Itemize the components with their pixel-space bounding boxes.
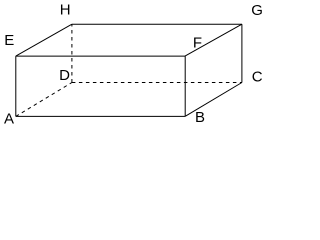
svg-text:G: G (251, 2, 263, 19)
svg-text:F: F (193, 35, 202, 52)
edge EH (top left depth) (16, 24, 72, 56)
svg-text:E: E (4, 32, 14, 49)
edge AD (hidden, dashed) (16, 83, 72, 117)
edge HG (back top) (72, 23, 242, 25)
svg-text:A: A (4, 110, 14, 127)
edge DC (hidden back bottom, dashed) (72, 82, 242, 84)
edge FG (top right depth) (185, 24, 242, 56)
edge EF (front top) (16, 55, 185, 57)
svg-text:H: H (60, 2, 71, 19)
edge BC (bottom right depth) (185, 83, 242, 117)
edge GC (back right vertical) (241, 24, 243, 82)
svg-text:B: B (195, 109, 205, 126)
edge BF (front right) (184, 56, 186, 116)
edge DH (hidden back left vertical, dashed) (71, 24, 73, 82)
svg-text:D: D (59, 67, 70, 84)
edge AB (front bottom) (16, 115, 185, 117)
svg-text:C: C (252, 68, 263, 85)
edge AE (front left) (15, 56, 17, 116)
